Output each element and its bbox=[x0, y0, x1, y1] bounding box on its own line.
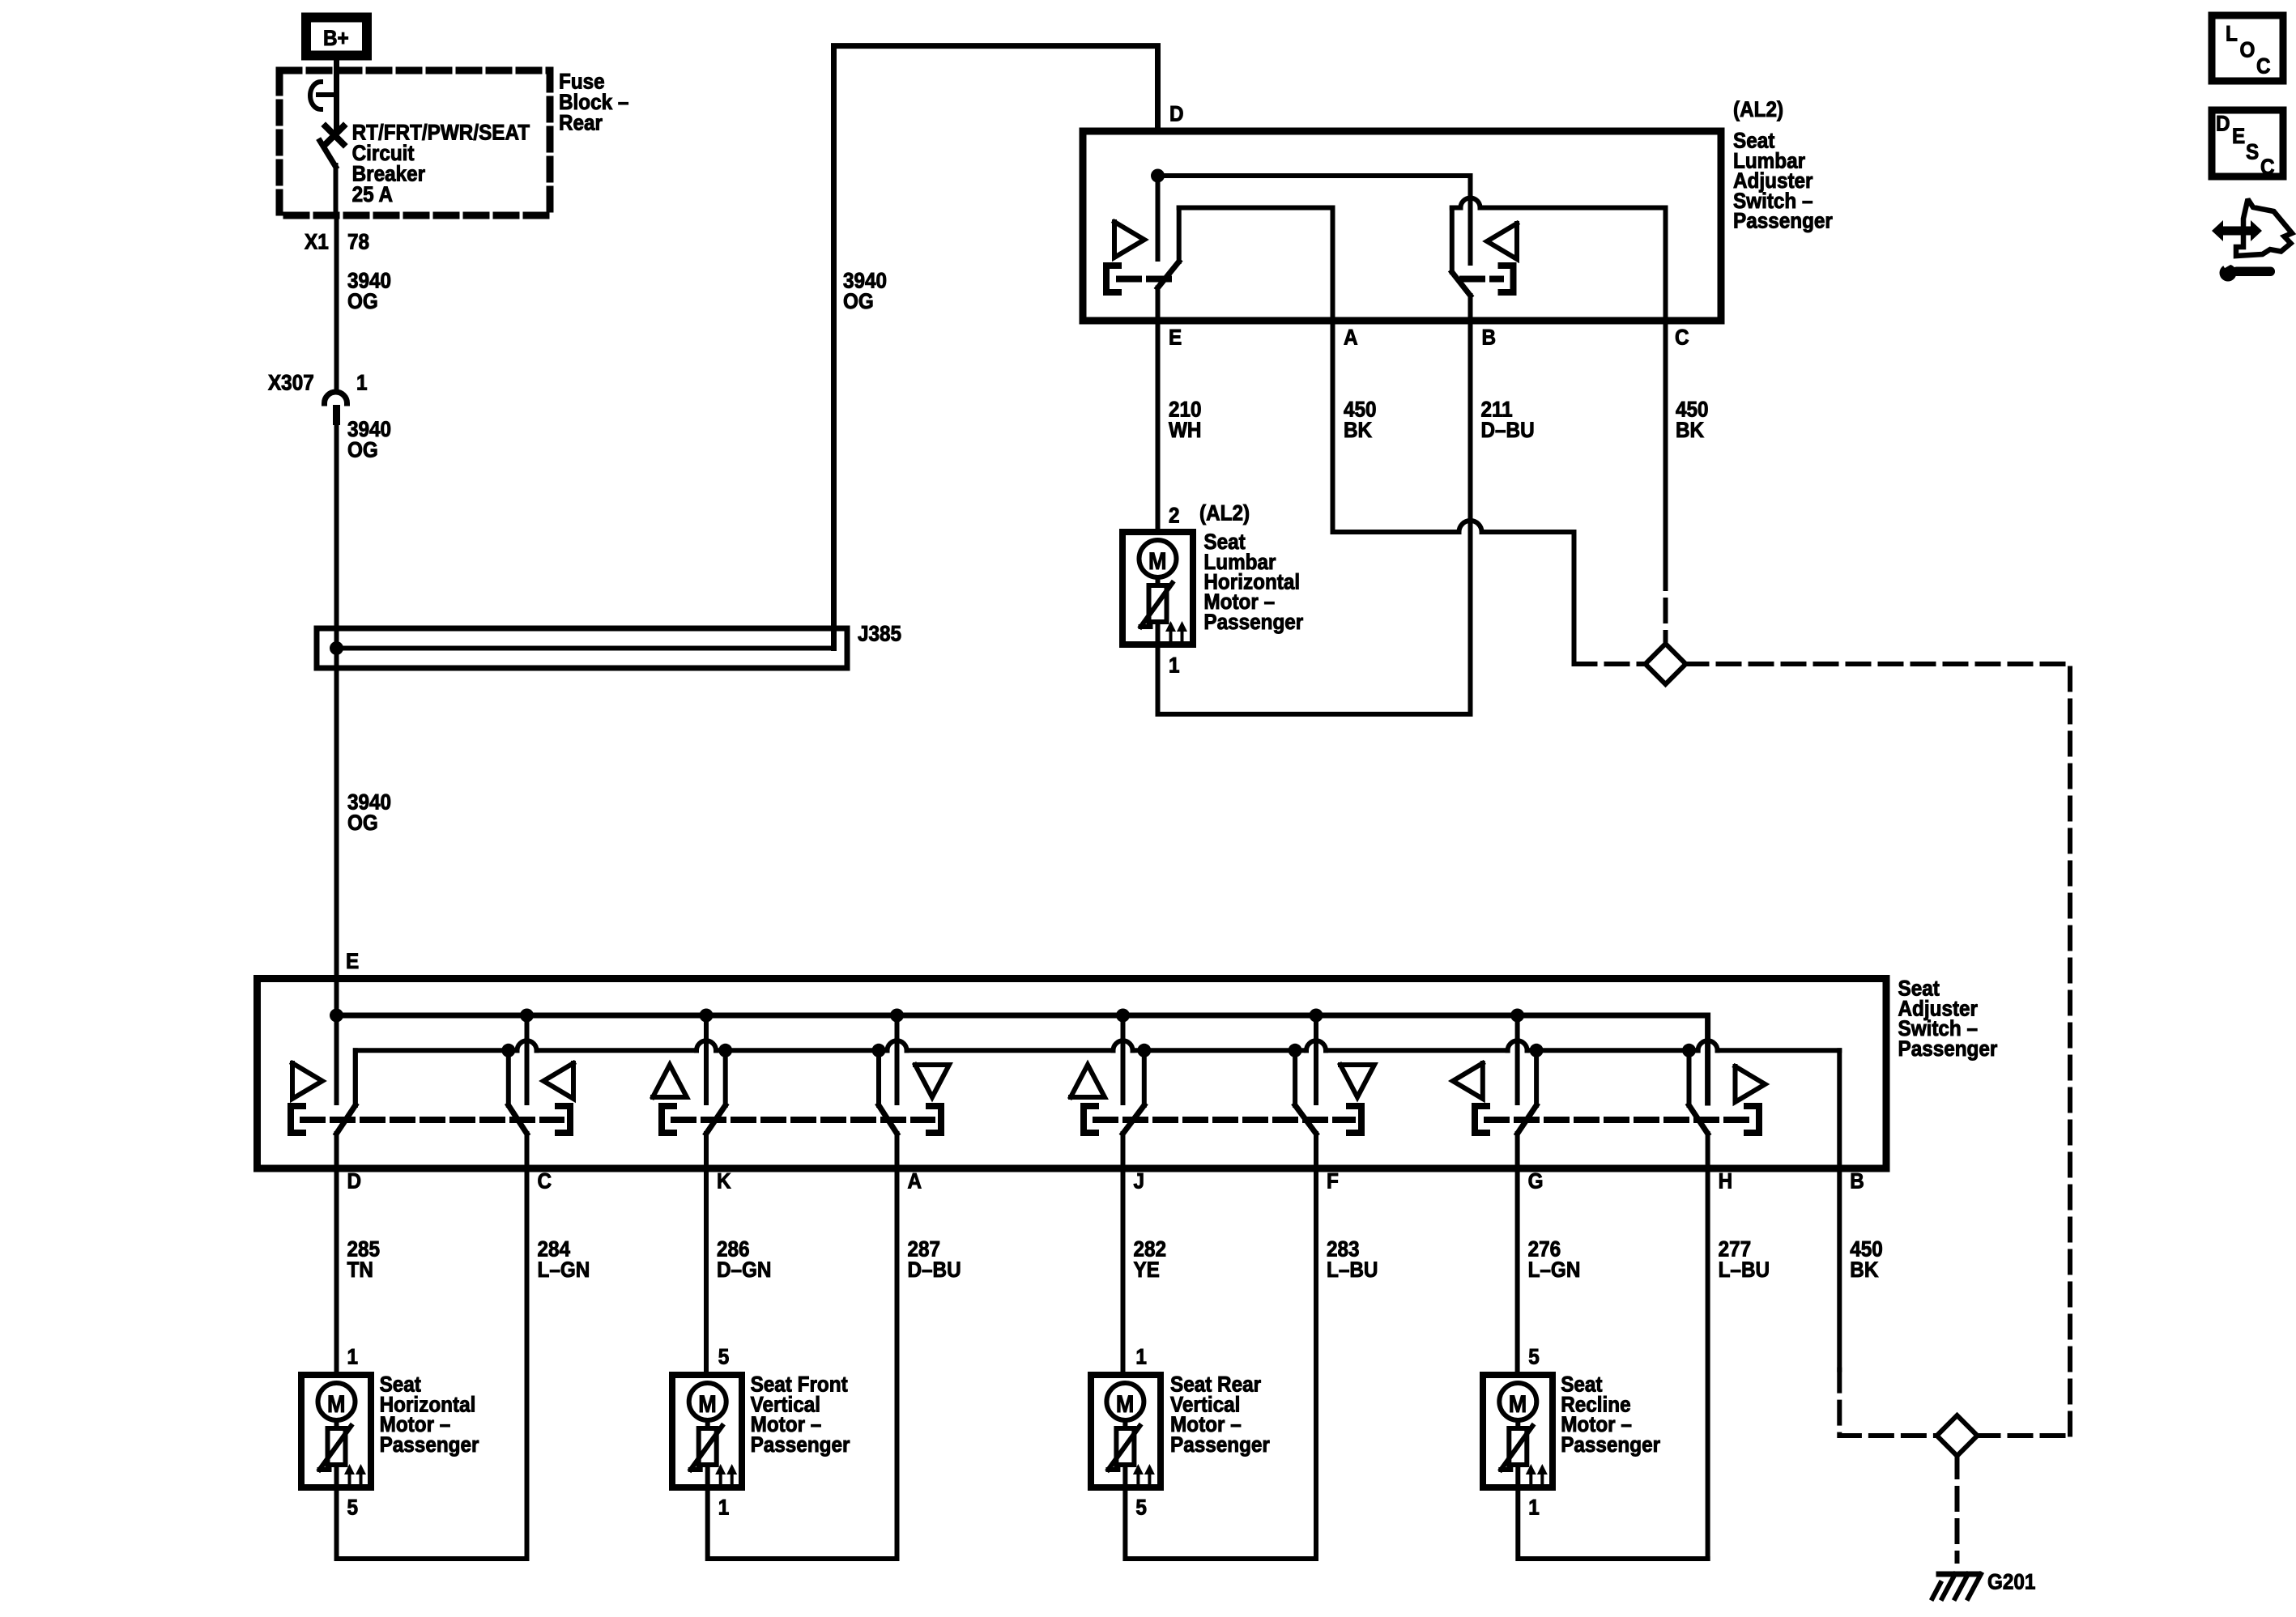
svg-text:YE: YE bbox=[1134, 1258, 1160, 1282]
switch seat front up (pin K) bbox=[653, 1015, 726, 1168]
svg-text:E: E bbox=[346, 950, 359, 973]
svg-text:J: J bbox=[1134, 1170, 1145, 1194]
svg-text:OG: OG bbox=[843, 290, 874, 313]
svg-text:L–GN: L–GN bbox=[537, 1258, 590, 1282]
wire motor return loop to pin H bbox=[1518, 1487, 1707, 1559]
wire dashed ground run to right margin and down bbox=[1686, 664, 2071, 1436]
svg-text:OG: OG bbox=[347, 290, 378, 313]
svg-text:1: 1 bbox=[356, 372, 368, 395]
svg-text:Passenger: Passenger bbox=[380, 1433, 479, 1457]
seat lumbar horizontal motor - passenger (AL2) bbox=[1122, 501, 1303, 678]
seat adjuster switch - passenger box bbox=[258, 977, 1998, 1168]
fuse block - rear (dashed outline) bbox=[279, 70, 628, 215]
svg-text:B: B bbox=[1850, 1170, 1864, 1194]
svg-text:Passenger: Passenger bbox=[1203, 611, 1303, 634]
svg-text:D–BU: D–BU bbox=[908, 1258, 961, 1282]
actuator linkage pair D-C bbox=[291, 1106, 570, 1133]
svg-text:D–GN: D–GN bbox=[717, 1258, 771, 1282]
svg-text:5: 5 bbox=[1135, 1496, 1147, 1520]
switch seat rearward (pin C) bbox=[509, 1015, 573, 1168]
switch recline rearward (pin G) bbox=[1453, 1015, 1536, 1168]
actuator linkage lumbar forward switch bbox=[1106, 266, 1171, 292]
ground G201 chassis symbol bbox=[1932, 1571, 2035, 1598]
svg-text:D: D bbox=[347, 1170, 361, 1194]
wire dashed 450 BK to splice diamond (lower) bbox=[1839, 1370, 1936, 1436]
svg-text:K: K bbox=[717, 1170, 731, 1194]
feed bus junction dots bbox=[330, 1009, 1524, 1023]
svg-text:78: 78 bbox=[347, 231, 369, 254]
svg-text:BK: BK bbox=[1850, 1258, 1879, 1282]
wire 450 BK pin A bbox=[1333, 321, 1377, 532]
switch recline forward (pin H) bbox=[1689, 1023, 1766, 1168]
LOC legend button bbox=[2212, 15, 2283, 81]
svg-text:S: S bbox=[2246, 140, 2259, 164]
svg-text:5: 5 bbox=[718, 1346, 730, 1369]
svg-text:X1: X1 bbox=[305, 231, 329, 254]
splice symbol on ground 450 BK (lower) bbox=[1937, 1415, 1978, 1456]
connector X1 pin 78 bbox=[305, 231, 369, 254]
svg-text:1: 1 bbox=[1528, 1496, 1540, 1520]
wire 3940 OG fuse block to X307 bbox=[337, 215, 392, 387]
wire 282 YE pin J to motor bbox=[1123, 1168, 1167, 1375]
wire pin A elbow to ground branch bbox=[1333, 530, 1459, 534]
svg-text:L–BU: L–BU bbox=[1327, 1258, 1378, 1282]
wire 3940 OG X307 to splice J385 bbox=[337, 418, 392, 628]
svg-text:B: B bbox=[1482, 326, 1497, 350]
lumbar switch rearward contact set bbox=[1452, 176, 1517, 321]
actuator linkage pair J-F bbox=[1084, 1106, 1361, 1133]
wire 211 D-BU pin B bbox=[1471, 321, 1535, 714]
component location icon (fender with arrow and wrench) bbox=[2212, 199, 2292, 282]
wire 283 L-BU pin F bbox=[1316, 1168, 1378, 1559]
wire 277 L-BU pin H bbox=[1708, 1168, 1770, 1559]
svg-text:L–GN: L–GN bbox=[1528, 1258, 1581, 1282]
actuator linkage pair G-H bbox=[1475, 1106, 1759, 1133]
wire motor return loop to pin A bbox=[708, 1487, 897, 1559]
splice symbol on ground 450 BK (upper) bbox=[1646, 644, 1686, 684]
svg-text:BK: BK bbox=[1344, 419, 1373, 442]
svg-text:Passenger: Passenger bbox=[1898, 1037, 1998, 1061]
svg-text:M: M bbox=[1509, 1391, 1527, 1419]
svg-text:TN: TN bbox=[347, 1258, 373, 1282]
svg-text:C: C bbox=[2256, 55, 2271, 79]
svg-text:(AL2): (AL2) bbox=[1199, 501, 1250, 525]
svg-text:1: 1 bbox=[347, 1346, 358, 1369]
seat front vertical motor - passenger bbox=[672, 1346, 850, 1520]
wire 450 BK pin C bbox=[1666, 321, 1709, 568]
switch seat rear down (pin F) bbox=[1295, 1015, 1374, 1168]
svg-text:OG: OG bbox=[347, 811, 378, 835]
wire 285 TN pin D to motor bbox=[337, 1168, 381, 1375]
svg-text:Passenger: Passenger bbox=[751, 1433, 850, 1457]
svg-text:1: 1 bbox=[1169, 654, 1180, 678]
wire 3940 OG J385 down to seat adjuster switch bbox=[337, 668, 392, 1015]
wire 210 WH pin E to lumbar motor bbox=[1158, 321, 1202, 532]
svg-text:M: M bbox=[1148, 548, 1166, 576]
wire B+ terminal to fuse block bbox=[334, 60, 339, 73]
svg-text:O: O bbox=[2240, 39, 2256, 62]
circuit breaker RT/FRT/PWR/SEAT 25 A bbox=[310, 73, 530, 215]
seat rear vertical motor - passenger bbox=[1091, 1346, 1270, 1520]
wire dashed A branch to splice diamond bbox=[1574, 662, 1646, 666]
seat horizontal motor - passenger bbox=[301, 1346, 479, 1520]
switch seat forward (pin D) bbox=[292, 1015, 356, 1168]
actuator linkage pair K-A bbox=[662, 1106, 941, 1133]
svg-text:A: A bbox=[1344, 326, 1358, 350]
svg-text:5: 5 bbox=[347, 1496, 358, 1520]
svg-text:25 A: 25 A bbox=[352, 183, 393, 206]
svg-text:C: C bbox=[1675, 326, 1689, 350]
wire dashed pin C to splice diamond bbox=[1663, 568, 1668, 644]
svg-text:G: G bbox=[1528, 1170, 1544, 1194]
svg-text:J385: J385 bbox=[858, 623, 901, 646]
wire 276 L-GN pin G to motor bbox=[1518, 1168, 1581, 1375]
wire lumbar feed D to right switch bbox=[1158, 173, 1471, 178]
ground bus junction dots bbox=[501, 1044, 1696, 1057]
in-line connector X307 pin 1 bbox=[268, 372, 368, 425]
wire 286 D-GN pin K to motor bbox=[706, 1168, 771, 1375]
svg-text:M: M bbox=[698, 1391, 716, 1419]
wire lumbar motor pin 1 return to pin B bbox=[1158, 645, 1471, 714]
wire 287 D-BU pin A bbox=[897, 1168, 961, 1559]
svg-text:G201: G201 bbox=[1987, 1571, 2035, 1594]
svg-text:2: 2 bbox=[1169, 504, 1180, 528]
wire motor return loop to pin C bbox=[337, 1487, 527, 1559]
lumbar rearward switch output loop to pin C bbox=[1452, 206, 1461, 211]
svg-text:M: M bbox=[1116, 1391, 1134, 1419]
svg-text:D: D bbox=[2216, 112, 2230, 135]
actuator linkage lumbar rearward switch bbox=[1463, 266, 1514, 292]
svg-text:X307: X307 bbox=[268, 372, 314, 395]
wire motor return loop to pin F bbox=[1125, 1487, 1316, 1559]
switch box pin labels D C K A J F G H B bbox=[347, 1170, 1864, 1194]
wire feed bus inside switch box bbox=[337, 1015, 1708, 1103]
svg-text:C: C bbox=[537, 1170, 552, 1194]
svg-text:BK: BK bbox=[1676, 419, 1705, 442]
lumbar switch forward contact set bbox=[1114, 176, 1179, 321]
svg-text:E: E bbox=[2232, 125, 2245, 148]
svg-text:Passenger: Passenger bbox=[1733, 209, 1833, 232]
svg-text:(AL2): (AL2) bbox=[1733, 98, 1783, 121]
svg-text:M: M bbox=[327, 1391, 345, 1419]
svg-text:Passenger: Passenger bbox=[1170, 1433, 1270, 1457]
svg-text:H: H bbox=[1719, 1170, 1733, 1194]
switch seat front down (pin A) bbox=[879, 1015, 949, 1168]
lumbar switch pin labels E A B C bbox=[1169, 326, 1689, 350]
svg-text:B+: B+ bbox=[323, 27, 349, 50]
seat lumbar adjuster switch - passenger (AL2) box bbox=[1083, 98, 1833, 321]
wire hop A over B bbox=[1459, 521, 1482, 532]
seat recline motor - passenger bbox=[1483, 1346, 1660, 1520]
svg-text:1: 1 bbox=[1135, 1346, 1147, 1369]
svg-text:WH: WH bbox=[1169, 419, 1201, 442]
DESC legend button bbox=[2212, 110, 2283, 179]
wire dashed splice to ground run corner bbox=[1978, 1433, 2071, 1438]
svg-text:1: 1 bbox=[718, 1496, 730, 1520]
svg-text:L: L bbox=[2226, 23, 2238, 46]
svg-text:F: F bbox=[1327, 1170, 1339, 1194]
svg-text:D: D bbox=[1169, 103, 1184, 126]
svg-text:Rear: Rear bbox=[559, 112, 603, 135]
switch seat rear up (pin J) bbox=[1071, 1015, 1144, 1168]
svg-text:C: C bbox=[2260, 155, 2275, 179]
wire 284 L-GN pin C bbox=[527, 1168, 590, 1559]
wire 450 BK pin B ground lead bbox=[1839, 1168, 1883, 1370]
node D lumbar switch feed pin bbox=[1151, 103, 1184, 183]
wire hop lumbar rest loop over feed bbox=[1461, 198, 1480, 208]
svg-text:OG: OG bbox=[347, 439, 378, 462]
svg-text:5: 5 bbox=[1528, 1346, 1540, 1369]
ground bus inside switch box to pin B bbox=[356, 1040, 1840, 1168]
svg-text:L–BU: L–BU bbox=[1719, 1258, 1770, 1282]
splice pack J385 bbox=[317, 623, 901, 668]
svg-text:Passenger: Passenger bbox=[1561, 1433, 1660, 1457]
lumbar forward switch output loop to pin A bbox=[1179, 208, 1333, 321]
wire dashed splice down to ground G201 bbox=[1955, 1456, 1960, 1561]
B+ battery feed terminal bbox=[306, 18, 367, 56]
svg-text:A: A bbox=[908, 1170, 922, 1194]
wire 3940 OG branch riser to lumbar switch bbox=[834, 46, 1158, 649]
svg-text:E: E bbox=[1169, 326, 1182, 350]
svg-text:D–BU: D–BU bbox=[1481, 419, 1535, 442]
